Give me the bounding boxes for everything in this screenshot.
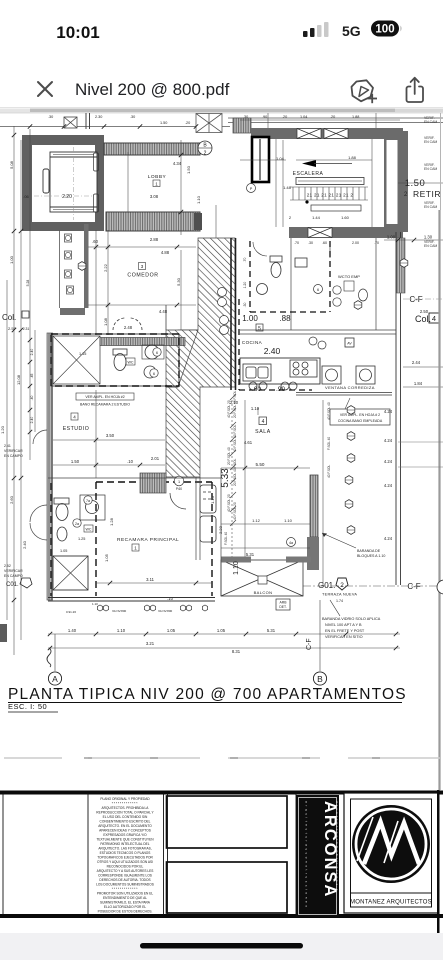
door arc hall: [174, 476, 184, 486]
svg-text:F.SOL 40: F.SOL 40: [224, 532, 228, 545]
svg-text:DET.: DET.: [279, 605, 286, 609]
upper hatched corridor wall: [104, 143, 200, 155]
svg-text:TOPOGRAFICOS EJECUTADOS POR: TOPOGRAFICOS EJECUTADOS POR: [97, 856, 153, 860]
svg-text:COCINA BANO EMPLEADA: COCINA BANO EMPLEADA: [338, 419, 383, 423]
svg-text:CORRESPONDE IGUALMENTE LOS: CORRESPONDE IGUALMENTE LOS: [98, 874, 152, 878]
svg-text:5G: 5G: [342, 23, 361, 39]
bottom tag row: [66, 602, 173, 614]
interior partition lines mid: [240, 238, 396, 334]
svg-text:1.00: 1.00: [242, 314, 258, 323]
svg-text:.20: .20: [282, 115, 287, 119]
comedor left wall: [84, 224, 89, 308]
svg-text:a r q u i t e c t u r a y c: a r q u i t e c t u r a y c o n s t r u …: [305, 801, 309, 908]
svg-text:4.34: 4.34: [173, 161, 182, 166]
stair hall top wall: [251, 128, 403, 139]
C-F dashdot line lower: [303, 585, 443, 587]
svg-text:4.88: 4.88: [161, 250, 170, 255]
svg-text:.30: .30: [130, 115, 135, 119]
svg-text:4.24: 4.24: [384, 483, 393, 488]
svg-text:1.05: 1.05: [217, 628, 226, 633]
svg-text:.60: .60: [92, 239, 98, 244]
toolbar close X: [38, 82, 52, 96]
svg-text:.20: .20: [330, 115, 335, 119]
svg-text:AV: AV: [347, 342, 352, 346]
svg-text:1.60: 1.60: [341, 215, 350, 220]
svg-text:NIVEL 100 APT A Y B: NIVEL 100 APT A Y B: [325, 623, 362, 627]
svg-text:.60: .60: [252, 386, 261, 393]
bottom main dim chain: [48, 634, 400, 648]
comedor gray sill: [60, 308, 85, 315]
svg-text:COMEDOR: COMEDOR: [127, 273, 158, 279]
svg-text:1: 1: [178, 480, 180, 484]
svg-text:40 F.SOL: 40 F.SOL: [327, 464, 331, 478]
svg-text:4.24: 4.24: [384, 536, 393, 541]
svg-text:1.30: 1.30: [424, 235, 433, 240]
svg-text:P.60: P.60: [176, 487, 182, 491]
svg-text:1.10: 1.10: [233, 561, 240, 575]
svg-text:BARANDA VIDRIO SOLO APLICA: BARANDA VIDRIO SOLO APLICA: [322, 617, 381, 621]
svg-text:C-F: C-F: [409, 295, 422, 304]
baranda vidrio note: [322, 617, 381, 639]
grid bubble B2 upper: [198, 141, 212, 157]
stair hall bottom wall: [289, 227, 403, 238]
svg-text:VER AMPL. EN HOJA #2: VER AMPL. EN HOJA #2: [85, 395, 124, 399]
toolbar markup icon: [352, 80, 378, 103]
double stub wall top: [86, 113, 90, 129]
svg-text:COCINA: COCINA: [242, 340, 263, 345]
svg-text:BANO RECAMARA 2 ESTUDIO: BANO RECAMARA 2 ESTUDIO: [80, 403, 130, 407]
svg-text:2.48: 2.48: [124, 325, 133, 330]
dim line below stair block: [384, 239, 443, 241]
svg-text:F.SOL 40: F.SOL 40: [327, 437, 331, 450]
tiny dims below stair wall: [294, 241, 379, 245]
svg-text:6: 6: [153, 372, 155, 376]
svg-text:1.10: 1.10: [284, 518, 293, 523]
svg-text:12.08: 12.08: [16, 374, 21, 385]
section squiggle: [47, 648, 51, 667]
svg-text:2.40: 2.40: [264, 346, 281, 356]
svg-text:1.05: 1.05: [60, 549, 67, 553]
svg-text:4.24: 4.24: [384, 438, 393, 443]
svg-text:.30: .30: [243, 115, 248, 119]
right frame edge line: [438, 210, 440, 790]
recamara bottom wall windows: [48, 598, 215, 602]
svg-text:EN CAM: EN CAM: [424, 244, 437, 248]
svg-text:1.12: 1.12: [252, 518, 261, 523]
estudio label: [71, 413, 78, 420]
svg-text:POSEEDOR DE ESTOS DERECHOS.: POSEEDOR DE ESTOS DERECHOS.: [98, 910, 153, 914]
svg-text:A: A: [52, 674, 58, 684]
bowtie beams in top wall: [297, 129, 348, 139]
svg-text:EN CAM: EN CAM: [424, 140, 437, 144]
svg-text:1.84: 1.84: [414, 381, 423, 386]
svg-text:3.11: 3.11: [146, 577, 155, 582]
lower handrail: [311, 205, 361, 211]
black column left of stairs: [252, 137, 269, 182]
left rotated dims: [0, 160, 27, 549]
svg-text:2.60: 2.60: [9, 495, 14, 504]
elevator car: [43, 152, 99, 212]
svg-text:1.50: 1.50: [186, 165, 191, 174]
svg-text:6: 6: [317, 288, 319, 292]
svg-text:.45: .45: [30, 374, 34, 379]
svg-text:DERECHOS DE AUTORIA. TODOS: DERECHOS DE AUTORIA. TODOS: [99, 878, 150, 882]
svg-text:2.40: 2.40: [30, 417, 34, 424]
svg-text:RECONOCIDOS POR EL: RECONOCIDOS POR EL: [107, 865, 144, 869]
svg-text:4: 4: [432, 314, 436, 323]
svg-text:*************: *************: [112, 887, 139, 891]
svg-text:ESCALERA: ESCALERA: [293, 171, 324, 177]
svg-text:40 F.SOL 40: 40 F.SOL 40: [327, 402, 331, 420]
svg-text:2: 2: [340, 582, 344, 589]
svg-text:2.23: 2.23: [218, 525, 223, 534]
elevator center dashed lines: [34, 147, 94, 220]
middle cell rails: [167, 796, 288, 913]
hatched stub top of stairs: [233, 118, 251, 133]
svg-text:40 F.SOL 20: 40 F.SOL 20: [227, 494, 231, 512]
svg-text:REPRODUCCION TOTAL O PARCIAL Y: REPRODUCCION TOTAL O PARCIAL Y: [96, 811, 154, 815]
svg-text:VER AMPL. EN HOJA # 2: VER AMPL. EN HOJA # 2: [340, 413, 380, 417]
svg-text:20 F.SOL 40 F.SOL: 20 F.SOL 40 F.SOL: [233, 458, 237, 486]
crossed skylight box top center: [196, 114, 222, 133]
svg-text:.40: .40: [30, 396, 34, 401]
svg-text:2.41: 2.41: [4, 444, 11, 448]
estudio right wall line: [165, 305, 167, 330]
svg-text:BARANDA DE: BARANDA DE: [357, 549, 381, 553]
stair treads: [290, 187, 368, 200]
svg-text:2.20: 2.20: [62, 194, 72, 200]
pdf cropped drawing strip: [0, 109, 443, 114]
svg-text:OTROS Y AQUI UTILIZADOS SON AS: OTROS Y AQUI UTILIZADOS SON ASI: [97, 860, 153, 864]
svg-text:VA NV.800: VA NV.800: [158, 609, 173, 613]
grid bubble A: [54, 634, 56, 671]
MONTANEZ box: [344, 793, 438, 913]
ver ampl cocina note: [330, 409, 390, 425]
svg-text:7a: 7a: [86, 499, 90, 503]
svg-text:2.31: 2.31: [23, 327, 30, 331]
svg-text:1.50: 1.50: [405, 178, 426, 189]
terraza vertical dim chain: [232, 400, 323, 585]
service bath left dim chain: [243, 258, 247, 308]
comedor door opening: [113, 318, 142, 330]
svg-text:8.31: 8.31: [232, 649, 241, 654]
svg-text:1.05: 1.05: [104, 553, 109, 562]
svg-text:10:01: 10:01: [56, 23, 99, 42]
svg-text:1.50: 1.50: [71, 459, 80, 464]
svg-text:ARQUITECTOS. PROHIBIDA LA: ARQUITECTOS. PROHIBIDA LA: [102, 806, 150, 810]
svg-text:EN CAM: EN CAM: [424, 120, 437, 124]
svg-text:1.74: 1.74: [336, 599, 343, 603]
svg-text:.10: .10: [127, 459, 133, 464]
right margin verif notes: [424, 116, 437, 248]
recamara dashed ampl boundary: [51, 482, 212, 596]
svg-text:EN CAM: EN CAM: [424, 205, 437, 209]
svg-text:BALCON: BALCON: [254, 590, 273, 595]
svg-text:APARECEN IDEAS Y CONCEPTOS: APARECEN IDEAS Y CONCEPTOS: [99, 829, 151, 833]
hatched band below stair right wall: [397, 238, 406, 293]
svg-text:1.25: 1.25: [78, 537, 85, 541]
left edge dark detail: [0, 624, 7, 642]
svg-text:5.31: 5.31: [246, 552, 255, 557]
svg-text:ARCONSA: ARCONSA: [321, 801, 339, 898]
svg-text:.88: .88: [279, 314, 291, 323]
svg-text:2.22: 2.22: [103, 263, 108, 272]
arb det box: [276, 599, 290, 610]
balcony top wall segments: [221, 557, 251, 563]
M logo: [352, 805, 430, 883]
comedor label: [139, 263, 146, 270]
svg-text:0.91.26: 0.91.26: [66, 610, 76, 614]
svg-text:2.40: 2.40: [22, 540, 27, 549]
big diagonal hatched column: [166, 238, 235, 477]
terrace hex tags: [347, 406, 355, 415]
svg-text:P: P: [250, 187, 253, 191]
service bath fixtures: [253, 242, 307, 295]
svg-text:2.52: 2.52: [4, 564, 11, 568]
svg-text:ENTENDIMIENTO DE QUE AL: ENTENDIMIENTO DE QUE AL: [103, 896, 147, 900]
interior verticals lower center: [196, 468, 221, 596]
svg-text:4.48: 4.48: [159, 309, 168, 314]
svg-text:C01.: C01.: [6, 582, 19, 588]
svg-text:1.48: 1.48: [283, 185, 292, 190]
svg-text:1.88: 1.88: [352, 115, 359, 119]
svg-text:ARQUITECTO. LAS FOTOGRAFIAS,: ARQUITECTO. LAS FOTOGRAFIAS,: [98, 847, 151, 851]
sala label: [259, 417, 267, 425]
svg-text:5: 5: [258, 326, 261, 332]
toolbar separator: [0, 107, 443, 108]
svg-text:2.44: 2.44: [412, 360, 421, 365]
svg-text:5.33: 5.33: [220, 468, 231, 488]
svg-text:.70: .70: [294, 241, 299, 245]
svg-text:1.05: 1.05: [167, 628, 176, 633]
svg-text:1.15: 1.15: [79, 352, 86, 356]
svg-text:4a: 4a: [289, 541, 293, 545]
dining chairs: [65, 234, 72, 242]
hex tag right margin: [400, 259, 408, 268]
top thick rule: [0, 791, 443, 795]
terrace 4.24 dims: [384, 409, 393, 541]
svg-text:.30: .30: [48, 115, 53, 119]
svg-text:2.40: 2.40: [30, 349, 34, 356]
closet double rects right of door: [200, 485, 216, 542]
svg-text:CONSENTIMIENTO ESCRITO DEL: CONSENTIMIENTO ESCRITO DEL: [100, 820, 151, 824]
svg-text:21 21 21 21 21 21 2: 21 21 21 21 21 21 2: [307, 193, 354, 198]
svg-text:.60: .60: [322, 241, 327, 245]
svg-text:3.50: 3.50: [106, 433, 115, 438]
svg-text:WC: WC: [86, 527, 92, 531]
svg-text:ARB: ARB: [280, 601, 288, 605]
bottom thick rule: [0, 914, 443, 918]
svg-text:ESC. I: 50: ESC. I: 50: [8, 702, 47, 711]
svg-text:G01.: G01.: [318, 581, 335, 590]
estudio bath outline: [51, 334, 179, 386]
svg-text:3.08: 3.08: [150, 194, 159, 199]
svg-text:2.00: 2.00: [352, 241, 359, 245]
svg-text:5.08: 5.08: [9, 160, 14, 169]
status bar signal bars: [303, 22, 329, 37]
svg-text:40 F.SOL 20: 40 F.SOL 20: [233, 502, 237, 520]
svg-text:ARQUITECTO Y A SUS AUTORES LES: ARQUITECTO Y A SUS AUTORES LES: [97, 869, 154, 873]
ARCONSA black box: [296, 795, 339, 917]
faint separator dashes: [4, 757, 440, 759]
grid bubble B: [319, 600, 321, 671]
svg-text:1.40: 1.40: [68, 628, 77, 633]
svg-text:1.00: 1.00: [9, 255, 14, 264]
svg-text:SALA: SALA: [255, 429, 271, 435]
dashed ampl boundary bath2: [51, 334, 179, 386]
svg-text:ESTUDIO: ESTUDIO: [63, 426, 90, 432]
svg-text:5.31: 5.31: [267, 628, 276, 633]
svg-text:1.00: 1.00: [387, 235, 396, 240]
svg-text:PLANTA TIPICA NIV 200 @ 700 AP: PLANTA TIPICA NIV 200 @ 700 APARTAMENTOS: [8, 686, 407, 703]
keyed note circles on hatch wall: [218, 288, 229, 335]
svg-text:.30: .30: [243, 303, 247, 308]
svg-text:B: B: [317, 674, 323, 684]
copyright text block: [96, 797, 154, 914]
svg-text:VA NV.800: VA NV.800: [112, 609, 127, 613]
svg-text:EXPRESADOS GRAFICA Y/O: EXPRESADOS GRAFICA Y/O: [103, 833, 147, 837]
svg-text:2.01: 2.01: [151, 456, 160, 461]
stair handrail: [296, 178, 364, 185]
svg-text:.20: .20: [185, 121, 190, 125]
window swing arcs left wall: [30, 430, 47, 540]
home indicator: [140, 943, 303, 949]
svg-text:C-F: C-F: [306, 638, 313, 650]
lav area boxes: [322, 338, 375, 384]
svg-text:.06: .06: [23, 194, 29, 199]
ver ampl estudio note: [76, 393, 134, 400]
estudio bath top hatched wall: [100, 338, 185, 346]
svg-text:1.88: 1.88: [348, 155, 357, 160]
svg-text:4.24: 4.24: [384, 459, 393, 464]
svg-text:PROMOTOR SON UTILIZADOS EN EL: PROMOTOR SON UTILIZADOS EN EL: [97, 892, 153, 896]
svg-text:2a: 2a: [75, 522, 79, 526]
svg-text:EN EL FRETE Y POST: EN EL FRETE Y POST: [325, 629, 365, 633]
svg-text:.90: .90: [276, 386, 285, 393]
dim ticks upper right area: [240, 120, 400, 160]
svg-text:1.10: 1.10: [196, 195, 201, 204]
svg-text:1.10: 1.10: [210, 495, 215, 504]
estudio left exterior wall: [47, 333, 53, 600]
rotated small texts terrace chain: [224, 390, 237, 545]
svg-text:PATRIMONIO INTELECTUAL DEL: PATRIMONIO INTELECTUAL DEL: [100, 842, 149, 846]
svg-text:LOBBY: LOBBY: [148, 174, 167, 180]
stair direction arrow: [302, 160, 316, 167]
svg-text:4: 4: [262, 419, 265, 425]
svg-text:.70: .70: [243, 258, 247, 263]
kitchen counter appliances: [240, 358, 320, 390]
svg-text:.10: .10: [167, 596, 173, 601]
svg-text:ESTUDIOS TECNICOS O PLANOS: ESTUDIOS TECNICOS O PLANOS: [100, 851, 151, 855]
svg-text:6: 6: [156, 351, 158, 355]
half grid bubble right edge: [437, 580, 443, 594]
left margin dim verticals: [7, 126, 35, 655]
top boundary lines above stair: [0, 118, 443, 127]
stair right exterior wall: [384, 131, 408, 232]
svg-text:RECAMARA PRINCIPAL: RECAMARA PRINCIPAL: [117, 537, 179, 543]
svg-text:1.20: 1.20: [0, 425, 5, 434]
svg-text:1.08: 1.08: [103, 317, 108, 326]
hall hatched wall left of door: [140, 473, 166, 493]
svg-text:1.04: 1.04: [300, 115, 307, 119]
estudio bath fixtures: [113, 345, 164, 378]
svg-text:ELLO AUTORIZADO POR EL: ELLO AUTORIZADO POR EL: [104, 905, 147, 909]
svg-text:2.30: 2.30: [95, 115, 102, 119]
svg-text:40 F.SOL 20: 40 F.SOL 20: [227, 400, 231, 418]
svg-text:EN CAM: EN CAM: [424, 167, 437, 171]
svg-text:1.10: 1.10: [92, 602, 98, 606]
svg-text:100: 100: [375, 24, 394, 36]
svg-text:.30: .30: [308, 241, 313, 245]
svg-text:3.21: 3.21: [146, 641, 155, 646]
svg-text:1.28: 1.28: [109, 517, 114, 526]
lobby dim vline: [128, 140, 216, 240]
svg-text:5.30: 5.30: [176, 277, 181, 286]
bottom gray band: [0, 933, 443, 960]
lower hatched corridor wall: [106, 212, 200, 231]
ampl dashed boundary service bath: [250, 241, 330, 312]
stair flight divider: [282, 140, 284, 227]
terrace left tick marks: [230, 394, 236, 526]
svg-text:2.88: 2.88: [150, 237, 159, 242]
svg-text:.90: .90: [262, 115, 267, 119]
svg-text:BLOQUES A 1.10: BLOQUES A 1.10: [357, 554, 385, 558]
svg-text:WC: WC: [128, 360, 134, 364]
svg-text:5.50: 5.50: [256, 462, 265, 467]
svg-text:ARQUITECTO. EN EL DOCUMENTO: ARQUITECTO. EN EL DOCUMENTO: [98, 824, 152, 828]
svg-text:EL USO DEL CONTENIDO SIN: EL USO DEL CONTENIDO SIN: [103, 815, 148, 819]
svg-text:Nivel 200 @ 800.pdf: Nivel 200 @ 800.pdf: [75, 80, 230, 99]
svg-text:LOS DOCUMENTOS SUMINISTRADOS: LOS DOCUMENTOS SUMINISTRADOS: [96, 883, 154, 887]
svg-text:4.24: 4.24: [384, 409, 393, 414]
balcon: [221, 560, 303, 596]
svg-text:2: 2: [204, 151, 207, 157]
svg-text:PLANO ORIGINAL Y PROPIEDAD: PLANO ORIGINAL Y PROPIEDAD: [100, 797, 150, 801]
svg-text:5.28: 5.28: [26, 280, 30, 287]
right margin terrace lines: [398, 441, 443, 443]
terraza wall hatched: [310, 475, 318, 537]
svg-text:MONTANEZ ARQUITECTOS: MONTANEZ ARQUITECTOS: [350, 900, 432, 906]
svg-text:.70: .70: [374, 241, 379, 245]
svg-text:WCTO EMP: WCTO EMP: [338, 274, 360, 279]
svg-text:C-F: C-F: [407, 582, 420, 591]
recamara principal bath: [53, 495, 105, 590]
svg-text:TERRAZA NUEVA: TERRAZA NUEVA: [322, 593, 357, 597]
svg-text:1.10: 1.10: [251, 406, 260, 411]
svg-text:1.20: 1.20: [243, 282, 247, 289]
svg-text:1.50: 1.50: [160, 121, 167, 125]
toolbar share icon: [407, 78, 424, 102]
svg-text:*************: *************: [112, 802, 139, 806]
svg-text:1.44: 1.44: [312, 215, 321, 220]
left cell lines: [3, 793, 296, 915]
svg-text:RETIR: RETIR: [413, 189, 441, 199]
right thick vertical: [437, 790, 440, 935]
svg-text:SUMINISTRARLO, EL ESTA PARA: SUMINISTRARLO, EL ESTA PARA: [100, 901, 151, 905]
right wall below stairs: [396, 232, 401, 585]
elevator shaft walls: [22, 135, 104, 231]
svg-text:TEXTUALMENTE QUE CONSTITUYEN: TEXTUALMENTE QUE CONSTITUYEN: [96, 838, 154, 842]
ampl dashed boundary cocina: [239, 299, 312, 390]
small crossed box top-left: [64, 117, 77, 128]
svg-text:VENTANA CORREDIZA: VENTANA CORREDIZA: [325, 385, 375, 390]
terrace right rotated dims: [327, 402, 331, 478]
recamara top boundary: [48, 477, 221, 479]
svg-text:1.10: 1.10: [117, 628, 126, 633]
dark wall edge right of hatch: [231, 238, 236, 390]
status bar battery: [371, 21, 402, 37]
